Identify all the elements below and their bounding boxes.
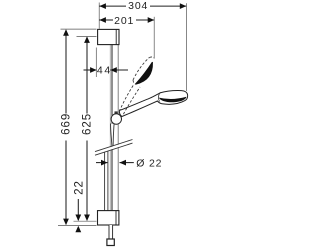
svg-text:669: 669 bbox=[61, 113, 73, 135]
svg-text:22: 22 bbox=[74, 180, 86, 195]
svg-text:4: 4 bbox=[97, 65, 104, 77]
svg-text:201: 201 bbox=[114, 15, 134, 27]
svg-text:Ø 22: Ø 22 bbox=[136, 158, 162, 170]
svg-text:304: 304 bbox=[128, 0, 148, 12]
svg-text:625: 625 bbox=[82, 113, 94, 135]
svg-text:4: 4 bbox=[104, 65, 111, 77]
